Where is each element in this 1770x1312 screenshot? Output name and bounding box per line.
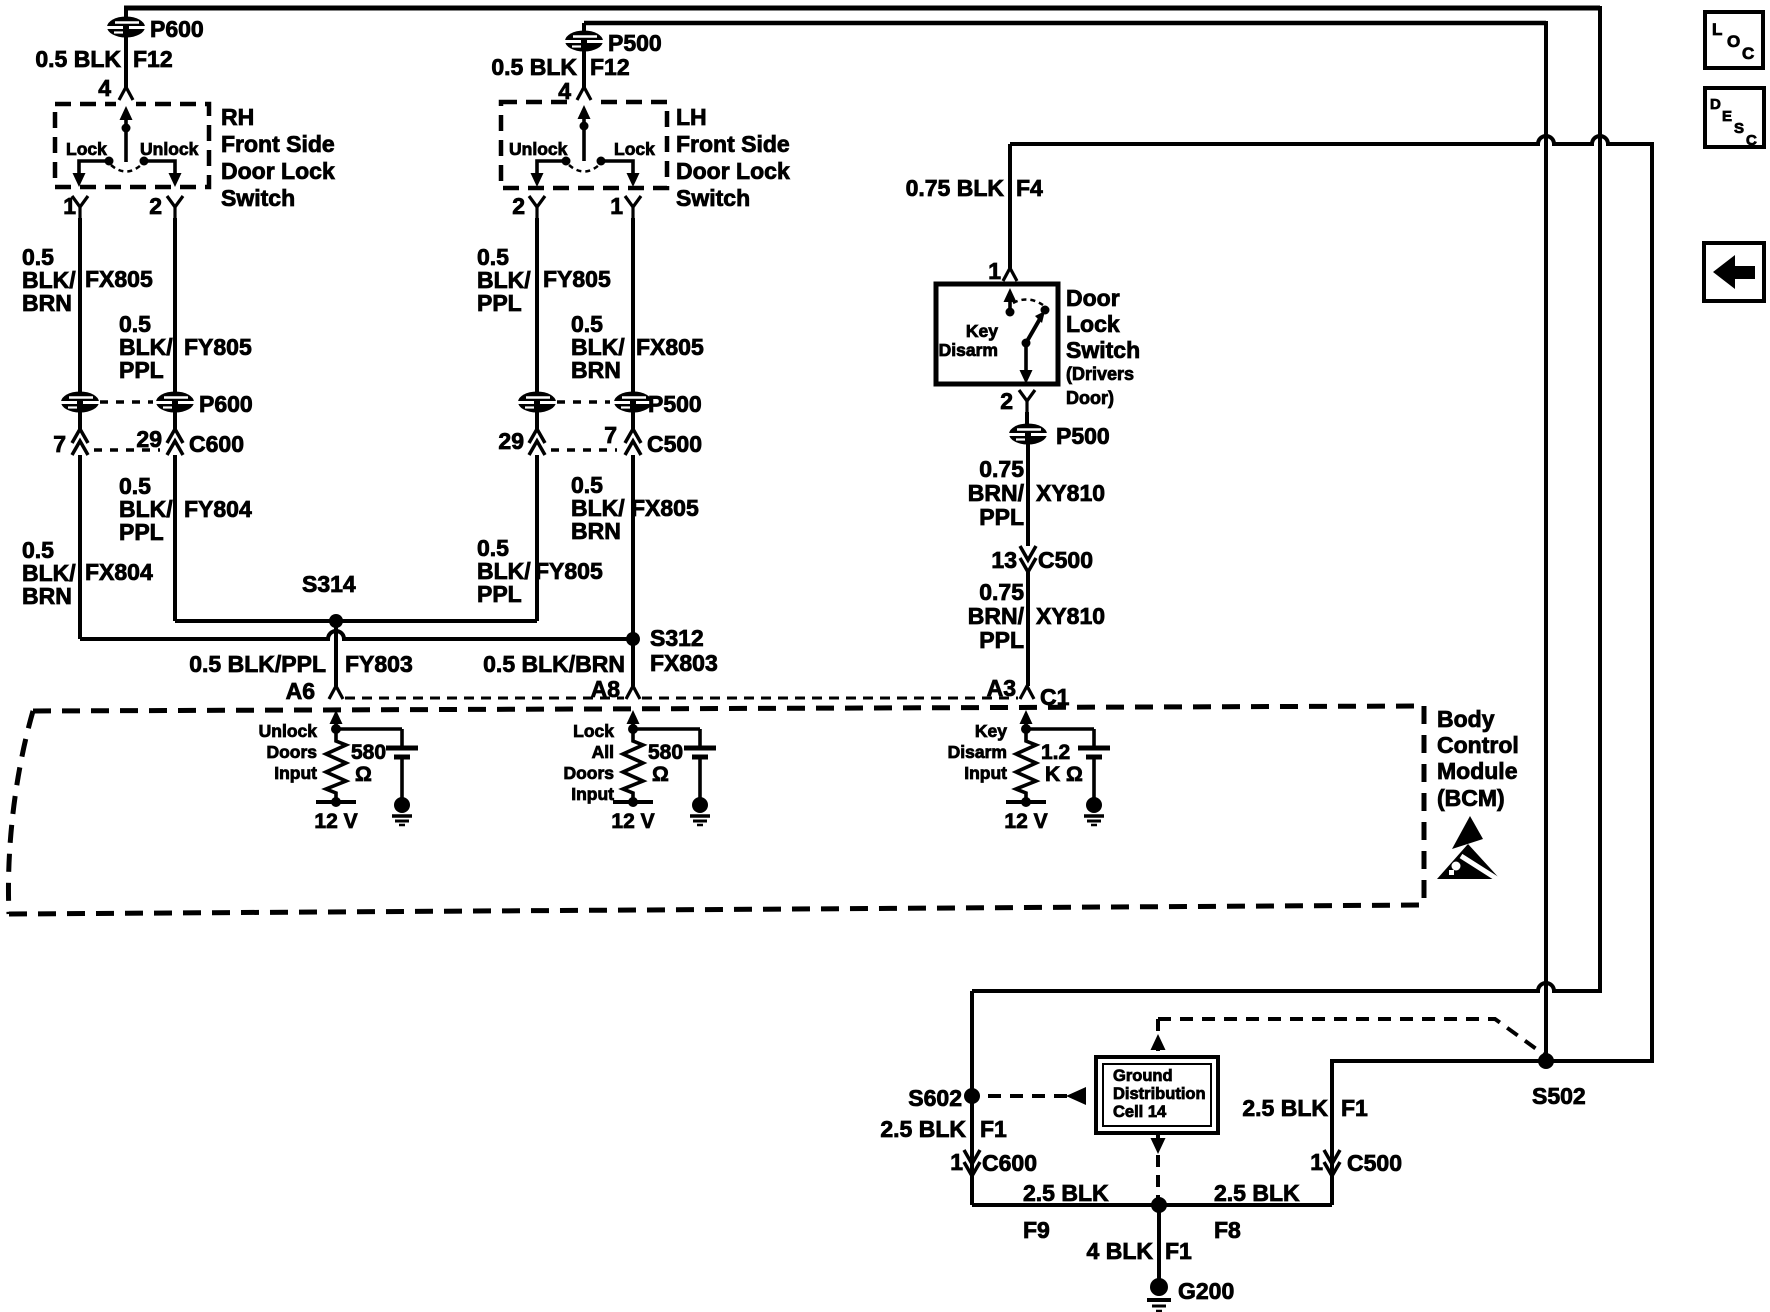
- svg-text:BRN/: BRN/: [968, 480, 1025, 506]
- svg-text:2: 2: [512, 193, 525, 219]
- svg-text:Lock: Lock: [1066, 311, 1120, 337]
- svg-text:BRN: BRN: [571, 518, 621, 544]
- svg-text:PPL: PPL: [477, 581, 522, 607]
- svg-text:C500: C500: [647, 431, 702, 457]
- svg-text:Ω: Ω: [355, 763, 372, 786]
- svg-text:Door: Door: [1066, 285, 1120, 311]
- svg-text:C: C: [1742, 44, 1754, 63]
- svg-text:Switch: Switch: [221, 185, 295, 211]
- svg-text:RH: RH: [221, 104, 254, 130]
- svg-text:FX804: FX804: [85, 559, 153, 585]
- svg-text:BRN: BRN: [571, 357, 621, 383]
- svg-text:C: C: [1746, 132, 1757, 149]
- svg-text:0.75 BLK: 0.75 BLK: [906, 175, 1005, 201]
- svg-text:0.5 BLK/BRN: 0.5 BLK/BRN: [483, 651, 625, 677]
- svg-text:Key: Key: [975, 721, 1007, 741]
- svg-text:F12: F12: [590, 54, 630, 80]
- svg-text:2: 2: [1000, 388, 1013, 414]
- svg-text:FX803: FX803: [650, 650, 718, 676]
- svg-text:Disarm: Disarm: [939, 340, 998, 360]
- svg-text:C600: C600: [189, 431, 244, 457]
- svg-text:Door): Door): [1066, 388, 1114, 408]
- svg-text:Lock: Lock: [573, 721, 614, 741]
- svg-text:S314: S314: [302, 571, 356, 597]
- svg-text:P600: P600: [199, 391, 253, 417]
- svg-text:BRN: BRN: [22, 290, 72, 316]
- svg-text:K Ω: K Ω: [1045, 763, 1083, 786]
- svg-text:2.5 BLK: 2.5 BLK: [1242, 1095, 1328, 1121]
- svg-text:E: E: [1722, 108, 1732, 125]
- svg-text:F12: F12: [133, 46, 173, 72]
- svg-text:1: 1: [988, 258, 1001, 284]
- svg-text:0.5 BLK: 0.5 BLK: [491, 54, 577, 80]
- svg-text:O: O: [1727, 32, 1740, 51]
- svg-text:BRN/: BRN/: [968, 603, 1025, 629]
- svg-text:7: 7: [604, 422, 617, 448]
- svg-text:Disarm: Disarm: [948, 742, 1007, 762]
- svg-text:XY810: XY810: [1036, 603, 1105, 629]
- svg-text:A6: A6: [286, 678, 315, 704]
- svg-text:Key: Key: [966, 321, 998, 341]
- svg-text:Unlock: Unlock: [259, 721, 318, 741]
- svg-text:F1: F1: [1341, 1095, 1368, 1121]
- svg-text:PPL: PPL: [979, 627, 1024, 653]
- svg-text:F1: F1: [1165, 1238, 1192, 1264]
- svg-text:29: 29: [498, 428, 524, 454]
- svg-text:Doors: Doors: [266, 742, 317, 762]
- svg-text:2.5 BLK: 2.5 BLK: [880, 1116, 966, 1142]
- svg-text:PPL: PPL: [119, 357, 164, 383]
- svg-text:Door Lock: Door Lock: [676, 158, 790, 184]
- svg-text:FX805: FX805: [85, 266, 153, 292]
- svg-text:Unlock: Unlock: [509, 139, 568, 159]
- svg-text:Input: Input: [571, 784, 614, 804]
- svg-text:12 V: 12 V: [611, 810, 654, 833]
- svg-text:4 BLK: 4 BLK: [1087, 1238, 1154, 1264]
- svg-text:2: 2: [149, 193, 162, 219]
- svg-text:Input: Input: [274, 763, 317, 783]
- svg-text:2.5 BLK: 2.5 BLK: [1214, 1180, 1300, 1206]
- svg-text:C500: C500: [1038, 547, 1093, 573]
- svg-text:S312: S312: [650, 625, 704, 651]
- svg-text:FY805: FY805: [535, 558, 603, 584]
- svg-text:(BCM): (BCM): [1437, 785, 1505, 811]
- svg-text:FX805: FX805: [631, 495, 699, 521]
- svg-text:FY803: FY803: [345, 651, 413, 677]
- svg-text:Ω: Ω: [652, 763, 669, 786]
- svg-text:(Drivers: (Drivers: [1066, 364, 1134, 384]
- svg-text:Unlock: Unlock: [140, 139, 199, 159]
- svg-text:Distribution: Distribution: [1113, 1085, 1206, 1103]
- svg-text:580: 580: [648, 741, 683, 764]
- svg-text:PPL: PPL: [119, 519, 164, 545]
- svg-text:All: All: [592, 742, 614, 762]
- svg-text:Front Side: Front Side: [221, 131, 335, 157]
- svg-text:Lock: Lock: [614, 139, 655, 159]
- svg-text:1: 1: [610, 193, 623, 219]
- svg-text:FX805: FX805: [636, 334, 704, 360]
- svg-text:29: 29: [136, 426, 162, 452]
- svg-text:Lock: Lock: [66, 139, 107, 159]
- svg-text:G200: G200: [1178, 1278, 1234, 1304]
- svg-text:PPL: PPL: [477, 290, 522, 316]
- svg-text:P500: P500: [648, 391, 702, 417]
- svg-text:FY804: FY804: [184, 496, 252, 522]
- svg-text:0.75: 0.75: [979, 579, 1024, 605]
- svg-text:Module: Module: [1437, 758, 1518, 784]
- svg-text:0.75: 0.75: [979, 456, 1024, 482]
- svg-text:F8: F8: [1214, 1217, 1241, 1243]
- svg-text:Door Lock: Door Lock: [221, 158, 335, 184]
- svg-text:4: 4: [98, 75, 111, 101]
- svg-text:1: 1: [950, 1149, 963, 1175]
- svg-text:Switch: Switch: [1066, 337, 1140, 363]
- svg-text:Cell 14: Cell 14: [1113, 1103, 1167, 1121]
- svg-text:0.5 BLK: 0.5 BLK: [35, 46, 121, 72]
- svg-text:Body: Body: [1437, 706, 1495, 732]
- svg-text:13: 13: [991, 547, 1017, 573]
- svg-text:4: 4: [558, 78, 571, 104]
- svg-text:2.5 BLK: 2.5 BLK: [1023, 1180, 1109, 1206]
- svg-text:D: D: [1710, 96, 1721, 113]
- svg-text:P600: P600: [150, 16, 204, 42]
- svg-text:C500: C500: [1347, 1150, 1402, 1176]
- svg-text:Ground: Ground: [1113, 1067, 1173, 1085]
- svg-text:P500: P500: [608, 30, 662, 56]
- svg-text:Switch: Switch: [676, 185, 750, 211]
- svg-text:C600: C600: [982, 1150, 1037, 1176]
- svg-text:580: 580: [351, 741, 386, 764]
- svg-text:7: 7: [53, 431, 66, 457]
- svg-text:1: 1: [1310, 1149, 1323, 1175]
- svg-text:S: S: [1734, 120, 1744, 137]
- svg-text:LH: LH: [676, 104, 707, 130]
- svg-text:BRN: BRN: [22, 583, 72, 609]
- svg-text:12 V: 12 V: [1004, 810, 1047, 833]
- svg-text:12 V: 12 V: [314, 810, 357, 833]
- svg-text:PPL: PPL: [979, 504, 1024, 530]
- svg-text:F9: F9: [1023, 1217, 1050, 1243]
- svg-text:F1: F1: [980, 1116, 1007, 1142]
- svg-text:FY805: FY805: [184, 334, 252, 360]
- svg-text:S602: S602: [908, 1085, 962, 1111]
- svg-text:L: L: [1712, 20, 1722, 39]
- svg-text:FY805: FY805: [543, 266, 611, 292]
- svg-text:Control: Control: [1437, 732, 1519, 758]
- svg-text:Input: Input: [964, 763, 1007, 783]
- svg-text:Doors: Doors: [563, 763, 614, 783]
- svg-text:1.2: 1.2: [1041, 741, 1070, 764]
- svg-text:0.5 BLK/PPL: 0.5 BLK/PPL: [189, 651, 326, 677]
- svg-text:P500: P500: [1056, 423, 1110, 449]
- svg-text:S502: S502: [1532, 1083, 1586, 1109]
- svg-text:Front Side: Front Side: [676, 131, 790, 157]
- svg-text:XY810: XY810: [1036, 480, 1105, 506]
- svg-text:F4: F4: [1016, 175, 1043, 201]
